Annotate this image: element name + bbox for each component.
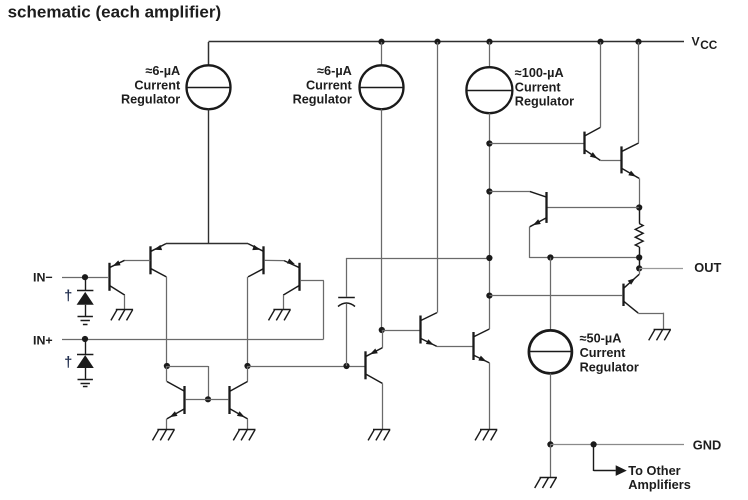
wire Q8 collector to VCC (437, 42, 439, 313)
transistor Q1 emitter (109, 260, 124, 267)
wire Q6 collector (247, 366, 249, 382)
transistor Q7 emitter (382, 330, 384, 348)
wire out node to I4 (550, 258, 552, 331)
transistor Q8 collector (421, 313, 437, 321)
wire Q9 emitter to ground (489, 363, 491, 430)
node dot Q3-Q6 (244, 363, 250, 369)
ground D2 earth (78, 379, 93, 381)
wire I2 down to Q7 emitter node (381, 109, 383, 330)
wire Q10 collector to VCC (600, 42, 602, 127)
transistor Q12 bar (545, 192, 547, 223)
svg-text:†: † (64, 355, 72, 371)
node dot VCC-I2 (378, 39, 384, 45)
transistor Q7 bar (364, 351, 366, 379)
transistor Q7 collector (366, 374, 382, 383)
node dot GND-I4 (547, 441, 553, 447)
current regulator I2 6uA (360, 65, 404, 109)
transistor Q13 bar (622, 284, 624, 306)
transistor Q9 emitter (474, 355, 490, 363)
transistor Q5 emitter (167, 409, 184, 419)
node dot VCC-Q8 (434, 39, 440, 45)
svg-text:Current: Current (306, 78, 353, 92)
node dot mirror base bus (205, 396, 211, 402)
arrow to other amplifiers (616, 465, 627, 476)
svg-text:Amplifiers: Amplifiers (628, 477, 691, 492)
svg-text:≈6-µA: ≈6-µA (145, 64, 180, 78)
svg-text:To Other: To Other (628, 463, 680, 478)
svg-text:CC: CC (700, 38, 718, 52)
wire below I4 to ground (550, 444, 552, 477)
wire R1 bottom to OUT (639, 258, 641, 269)
node dot R1 bottom (636, 254, 642, 260)
wire IN+ (62, 339, 323, 341)
svg-text:Current: Current (134, 78, 181, 92)
transistor Q3 collector (248, 269, 263, 277)
svg-text:Regulator: Regulator (580, 361, 639, 375)
wire to other amplifiers branch (593, 444, 595, 471)
transistor Q11 bar (620, 146, 622, 173)
transistor Q11 emitter (622, 169, 639, 179)
wire Q5 collector (166, 366, 168, 382)
diode D2 (77, 354, 93, 356)
node dot gain-cap (486, 255, 492, 261)
transistor Q3 bar (262, 246, 264, 274)
wire gain node to Q13 base (489, 295, 622, 297)
ground Q6 emitter (238, 429, 255, 431)
svg-text:IN−: IN− (33, 270, 53, 284)
transistor Q13 emitter (639, 268, 641, 274)
transistor Q10 emitter (585, 150, 600, 160)
node dot IN+ (82, 336, 88, 342)
svg-text:OUT: OUT (694, 260, 721, 275)
node dot Q2-Q5 (164, 363, 170, 369)
svg-text:IN+: IN+ (33, 334, 53, 348)
wire IN- (62, 277, 108, 279)
wire Q3 collector down (247, 277, 249, 366)
svg-text:GND: GND (693, 437, 721, 452)
node dot GND-branch (591, 441, 597, 447)
node dot Q11em-R1 (636, 204, 642, 210)
wire Q1 emitter to Q2 base (125, 260, 151, 262)
resistor R1 (639, 208, 641, 224)
wire OUT (639, 268, 683, 270)
wire VCC to I3 (489, 42, 491, 67)
wire Q4 emitter to Q3 base (265, 259, 284, 261)
transistor Q1 collector (109, 285, 125, 295)
transistor Q13 collector (624, 301, 639, 313)
ground D1 earth (78, 316, 93, 318)
wire Q2 collector down (166, 277, 168, 366)
wire Q6 emitter to ground (247, 419, 249, 430)
node dot I4 tap (547, 254, 553, 260)
wire gain node to Q10 base (489, 143, 584, 145)
current regulator I3 100uA (466, 67, 512, 113)
transistor Q12 emitter (530, 218, 546, 227)
transistor Q2 emitter (151, 244, 166, 252)
node dot OUT (636, 265, 642, 271)
wire Q12 collector to gain node (489, 191, 529, 193)
svg-text:Regulator: Regulator (515, 95, 574, 109)
wire I4 to GND rail (550, 373, 552, 444)
capacitor C1 (338, 297, 355, 299)
transistor Q2 bar (149, 246, 151, 274)
svg-text:schematic (each amplifier): schematic (each amplifier) (8, 2, 222, 21)
current regulator I4 50uA (529, 330, 572, 373)
transistor Q11 collector (622, 143, 639, 151)
ground Q1 collector (116, 309, 133, 311)
wire Q8 emitter to Q9 base (437, 346, 473, 348)
transistor Q4 emitter (284, 261, 300, 268)
svg-text:Regulator: Regulator (121, 93, 180, 107)
wire Q7 collector to ground (382, 383, 384, 429)
ground Q5 emitter (157, 429, 174, 431)
node dot Q7 emitter (379, 327, 385, 333)
transistor Q5 bar (183, 386, 185, 414)
transistor Q2 collector (151, 269, 166, 277)
wire Q10 emitter to Q11 base (600, 160, 621, 162)
wire I3 to Q9 collector (gain node) (489, 113, 491, 329)
wire mirror base bus (186, 399, 228, 401)
wire Q11 emitter down (639, 178, 641, 207)
svg-text:≈100-µA: ≈100-µA (515, 66, 564, 80)
svg-text:≈6-µA: ≈6-µA (317, 64, 352, 78)
wire I1 to input tail (208, 109, 210, 243)
wire Q11 collector to VCC (638, 42, 640, 143)
node dot gain-Q12coll (486, 188, 492, 194)
current regulator I1 6uA (187, 65, 231, 109)
wire Q13 collector to ground (638, 313, 664, 315)
transistor Q10 bar (583, 132, 585, 155)
transistor Q12 collector (530, 191, 546, 197)
ground Q7 collector (373, 429, 390, 431)
node dot gain-Q10base (486, 140, 492, 146)
wire IN- diode branch (85, 277, 87, 291)
node dot cap bottom (343, 363, 349, 369)
wire VCC to I1 (208, 42, 210, 65)
wire Q4 base loop (301, 280, 324, 282)
diode D1 (77, 290, 93, 292)
transistor Q1 bar (108, 263, 110, 291)
transistor Q9 bar (472, 332, 474, 360)
node dot VCC-Q10 (597, 39, 603, 45)
wire Q5 diode connect (167, 366, 208, 368)
wire Q5 emitter to ground (166, 419, 168, 430)
svg-text:V: V (692, 35, 701, 49)
node dot VCC-I3 (486, 39, 492, 45)
ground below I4 (540, 477, 557, 479)
wire VCC rail (209, 41, 685, 43)
transistor Q6 emitter (230, 409, 247, 419)
wire cap top corner (346, 258, 489, 260)
wire Q4 collector to ground (283, 295, 285, 309)
wire Q12 emitter to out node (529, 227, 531, 258)
wire GND rail (550, 444, 684, 446)
svg-text:≈50-µA: ≈50-µA (580, 332, 622, 346)
ground Q9 emitter (480, 429, 497, 431)
transistor Q4 bar (298, 263, 300, 291)
wire tail bus (166, 243, 248, 245)
ground Q4 collector (273, 309, 290, 311)
transistor Q8 bar (419, 316, 421, 344)
svg-text:Regulator: Regulator (293, 93, 352, 107)
transistor Q6 bar (228, 386, 230, 414)
node dot IN- (82, 274, 88, 280)
transistor Q8 emitter (421, 339, 437, 347)
transistor Q3 emitter (248, 244, 263, 252)
svg-text:Current: Current (515, 80, 562, 94)
transistor Q9 collector (474, 329, 490, 337)
ground Q13 collector (654, 329, 671, 331)
wire Q12 base (548, 207, 640, 209)
transistor Q4 collector (283, 285, 299, 295)
svg-text:Current: Current (580, 346, 627, 360)
transistor Q10 collector (585, 127, 600, 135)
wire Q1 collector to ground (124, 295, 126, 309)
wire IN+ diode branch (85, 339, 87, 354)
node dot gain-Q13base (486, 293, 492, 299)
wire Q7 node to Q8 base (382, 330, 421, 332)
transistor Q5 collector diag (167, 382, 184, 392)
transistor Q6 collector diag (230, 382, 247, 392)
wire mirror output to Q7 base (248, 366, 366, 368)
node dot VCC-Q11 (635, 39, 641, 45)
wire VCC to I2 (381, 42, 383, 65)
svg-text:†: † (64, 288, 72, 304)
